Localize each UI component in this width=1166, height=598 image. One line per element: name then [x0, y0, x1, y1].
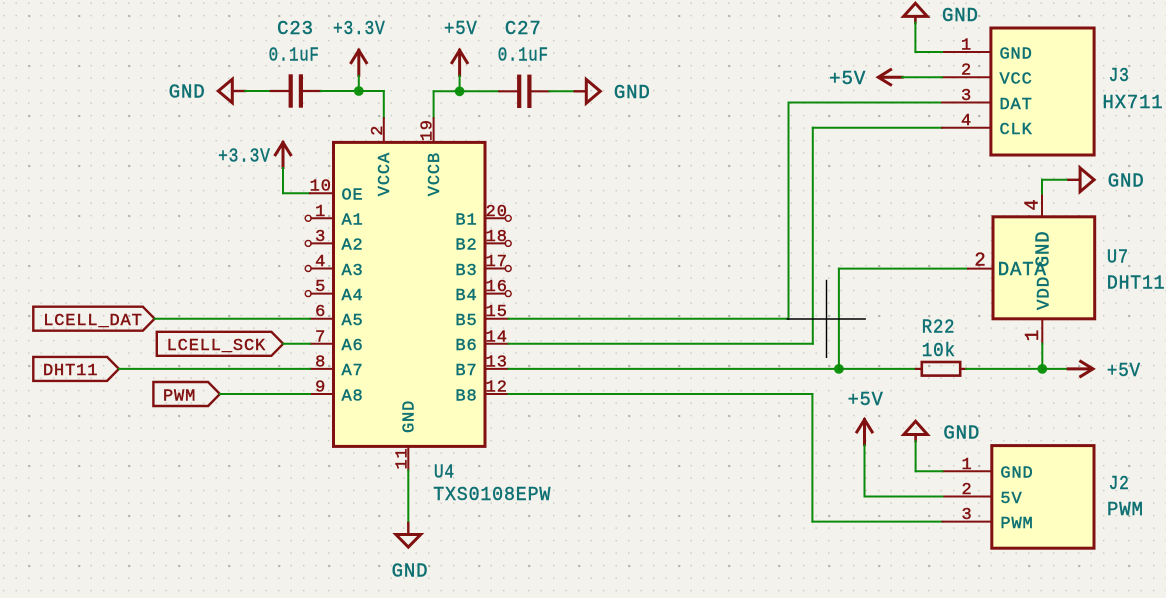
- svg-text:10: 10: [310, 178, 332, 197]
- wire DAT riser vertical: [788, 103, 790, 319]
- U4 pin 13 (B7): [455, 353, 508, 381]
- U4 pin 2 (VCCA): [369, 118, 395, 196]
- svg-text:2: 2: [961, 62, 972, 81]
- svg-text:4: 4: [961, 112, 972, 131]
- U7 pin 1 (VDD): [1022, 276, 1055, 344]
- capacitor C27: [499, 75, 549, 108]
- wire B5 to DAT riser: [509, 318, 789, 320]
- wire corner to J3 pin1: [915, 51, 942, 53]
- wire junction up to DATA: [838, 269, 840, 369]
- resistor R22: [916, 362, 966, 376]
- wire DAT horizontal to J3: [789, 102, 943, 104]
- svg-text:+3.3V: +3.3V: [333, 18, 386, 40]
- svg-text:TXS0108EPW: TXS0108EPW: [433, 484, 551, 506]
- svg-text:GND: GND: [401, 400, 420, 433]
- svg-text:DHT11: DHT11: [43, 362, 98, 381]
- svg-text:18: 18: [486, 228, 508, 247]
- power symbol +3.3V OE (up arrow): [275, 143, 292, 168]
- svg-text:VCCB: VCCB: [426, 152, 445, 196]
- svg-text:B5: B5: [455, 312, 477, 331]
- svg-text:+5V: +5V: [829, 68, 866, 90]
- svg-text:LCELL_SCK: LCELL_SCK: [167, 337, 266, 356]
- wire gnd to C23: [245, 90, 271, 92]
- svg-text:12: 12: [486, 379, 508, 398]
- wire LCELL_DAT to A5: [155, 318, 310, 320]
- ground symbol below U4: [396, 523, 421, 547]
- gnd symbol left of C23: [218, 79, 245, 103]
- svg-text:GND: GND: [614, 82, 651, 104]
- power symbol +5V J2 (up arrow): [856, 420, 873, 445]
- wire C23 to +3.3V junction: [321, 90, 359, 92]
- wire corner to J2 pin2: [865, 496, 943, 498]
- svg-text:PWM: PWM: [1107, 499, 1144, 521]
- wire corner to J2 pin1: [916, 470, 943, 472]
- svg-text:GND: GND: [1033, 231, 1055, 268]
- svg-text:8: 8: [315, 353, 326, 372]
- wire CLK riser vertical: [812, 128, 814, 344]
- U4 pin 9 (A8): [310, 379, 364, 407]
- svg-text:+5V: +5V: [1107, 360, 1141, 382]
- cursor crosshair: [787, 280, 866, 358]
- svg-text:VCCA: VCCA: [376, 152, 395, 196]
- svg-text:4: 4: [1022, 198, 1044, 210]
- svg-text:B8: B8: [455, 387, 477, 406]
- svg-text:+5V: +5V: [848, 389, 884, 411]
- wire B6 to CLK riser: [509, 343, 813, 345]
- wire gnd down to J3 pin1: [914, 23, 916, 52]
- power symbol +5V right arrow: [1068, 361, 1093, 378]
- svg-text:16: 16: [486, 278, 508, 297]
- wire junction to VCCA corner: [359, 90, 384, 92]
- svg-text:5: 5: [315, 278, 326, 297]
- wire R22 to VDD junction: [966, 368, 1042, 370]
- svg-text:0.1uF: 0.1uF: [269, 44, 320, 66]
- svg-text:20: 20: [486, 203, 508, 222]
- U4 pin 6 (A5): [310, 303, 364, 331]
- wire gnd down to J2 pin1: [915, 441, 917, 471]
- U4 pin 8 (A7): [310, 353, 364, 381]
- svg-text:HX711: HX711: [1103, 92, 1164, 114]
- wire corner to OE pin: [283, 192, 310, 194]
- svg-text:13: 13: [486, 353, 508, 372]
- J2 pin 1 (GND): [943, 456, 1034, 484]
- svg-text:0.1uF: 0.1uF: [498, 44, 549, 66]
- svg-text:U7: U7: [1107, 247, 1129, 269]
- U4 pin 12 (B8): [455, 379, 508, 407]
- svg-text:A6: A6: [342, 337, 364, 356]
- wire B7 to junction: [509, 368, 839, 370]
- wire junction to VCCB corner: [434, 90, 460, 92]
- svg-text:A5: A5: [342, 312, 364, 331]
- svg-text:PWM: PWM: [1000, 515, 1033, 534]
- svg-text:1: 1: [961, 456, 972, 475]
- svg-text:10k: 10k: [922, 340, 956, 362]
- wire B8 horizontal: [509, 393, 813, 395]
- svg-text:R22: R22: [922, 317, 956, 339]
- svg-text:+5V: +5V: [444, 18, 478, 40]
- wire +3.3V symbol drop: [358, 76, 360, 91]
- svg-text:GND: GND: [1000, 465, 1033, 484]
- svg-text:A2: A2: [342, 237, 364, 256]
- gnd symbol right of C27: [575, 80, 601, 104]
- sensor U7 DHT11 body: [993, 217, 1095, 319]
- U4 pin 10 (OE): [310, 178, 364, 206]
- gnd symbol above J2: [904, 421, 928, 441]
- gnd symbol above J3: [904, 3, 928, 23]
- svg-text:7: 7: [315, 328, 326, 347]
- J3 pin 3 (DAT): [942, 87, 1033, 115]
- svg-text:19: 19: [419, 119, 438, 141]
- svg-text:2: 2: [974, 250, 986, 272]
- global label PWM: [153, 382, 220, 406]
- svg-text:9: 9: [315, 379, 326, 398]
- wire junction to R22: [839, 368, 916, 370]
- svg-text:DHT11: DHT11: [1107, 273, 1166, 295]
- global label LCELL_DAT: [33, 307, 154, 331]
- svg-text:1: 1: [961, 37, 972, 56]
- svg-text:GND: GND: [942, 5, 979, 27]
- svg-text:J3: J3: [1109, 65, 1130, 87]
- U4 pin 15 (B5): [455, 303, 508, 331]
- op IC U4 TXS0108EPW body: [334, 142, 486, 446]
- svg-text:A7: A7: [342, 362, 364, 381]
- junction +5V rail: [455, 86, 465, 96]
- connector J2 PWM body: [992, 446, 1094, 549]
- svg-text:5V: 5V: [1000, 490, 1022, 509]
- svg-text:4: 4: [315, 253, 326, 272]
- svg-text:A4: A4: [342, 287, 364, 306]
- U4 pin 14 (B6): [455, 328, 508, 356]
- wire down to VCCB pin: [433, 91, 435, 118]
- svg-text:OE: OE: [342, 187, 364, 206]
- U4 pin 3 (A2): [305, 228, 363, 256]
- svg-text:LCELL_DAT: LCELL_DAT: [43, 312, 142, 331]
- J3 pin 1 (GND): [942, 37, 1033, 65]
- svg-text:A3: A3: [342, 262, 364, 281]
- J2 pin 2 (5V): [943, 481, 1023, 509]
- junction node DHT11 data: [834, 364, 844, 374]
- svg-text:B3: B3: [455, 262, 477, 281]
- U4 pin 7 (A6): [310, 328, 364, 356]
- U4 pin 1 (A1): [305, 203, 363, 231]
- svg-text:6: 6: [315, 303, 326, 322]
- U4 pin 16 (B4): [455, 278, 511, 306]
- svg-text:2: 2: [369, 125, 388, 136]
- svg-text:3: 3: [315, 228, 326, 247]
- svg-text:3: 3: [961, 506, 972, 525]
- wire U7 VDD down to junction: [1041, 344, 1043, 369]
- svg-text:2: 2: [961, 481, 972, 500]
- U4 pin 18 (B2): [455, 228, 511, 256]
- svg-text:VDD: VDD: [1035, 276, 1055, 310]
- wire down to VCCA pin: [383, 91, 385, 118]
- svg-text:15: 15: [486, 303, 508, 322]
- svg-text:B6: B6: [455, 337, 477, 356]
- svg-text:A8: A8: [342, 387, 364, 406]
- svg-text:11: 11: [393, 447, 412, 469]
- wire LCELL_SCK to A6: [283, 343, 310, 345]
- wire DHT11 to A7: [119, 368, 310, 370]
- U7 pin 4 (GND): [1022, 194, 1055, 268]
- svg-text:CLK: CLK: [1000, 121, 1033, 140]
- U4 pin 19 (VCCB): [419, 118, 445, 196]
- svg-text:J2: J2: [1109, 473, 1130, 495]
- wire junction to +5V arrow: [1042, 368, 1068, 370]
- svg-text:C23: C23: [277, 18, 314, 40]
- wire U7 gnd corner right: [1042, 179, 1068, 181]
- wire CLK horizontal to J3: [813, 127, 942, 129]
- U4 pin 11 (GND): [393, 400, 419, 471]
- capacitor C23: [271, 74, 321, 107]
- svg-text:VCC: VCC: [1000, 71, 1033, 90]
- svg-text:B7: B7: [455, 362, 477, 381]
- svg-text:A1: A1: [342, 212, 364, 231]
- svg-text:DAT: DAT: [1000, 96, 1033, 115]
- junction +3.3V rail: [354, 86, 364, 96]
- U4 pin 5 (A4): [305, 278, 363, 306]
- svg-text:GND: GND: [169, 82, 206, 104]
- U4 pin 20 (B1): [455, 203, 511, 231]
- gnd symbol right of U7: [1069, 168, 1095, 192]
- svg-text:GND: GND: [1000, 45, 1033, 64]
- wire C27 to gnd arrow: [549, 90, 575, 92]
- svg-text:B1: B1: [455, 212, 477, 231]
- svg-text:B4: B4: [455, 287, 477, 306]
- svg-text:GND: GND: [392, 560, 429, 582]
- svg-text:+3.3V: +3.3V: [218, 146, 271, 168]
- global label DHT11: [33, 357, 119, 381]
- svg-text:PWM: PWM: [163, 387, 196, 406]
- wire DATA horizontal to U7: [839, 268, 968, 270]
- wire +3.3V to OE corner: [282, 168, 284, 193]
- connector J3 HX711 body: [991, 28, 1094, 155]
- svg-text:B2: B2: [455, 237, 477, 256]
- wire +5V to J3 VCC: [902, 76, 942, 78]
- U4 pin 4 (A3): [305, 253, 363, 281]
- svg-text:GND: GND: [1108, 171, 1145, 193]
- power symbol +3.3V (up arrow): [350, 50, 367, 75]
- wire U4 gnd pin down: [407, 471, 409, 524]
- J3 pin 2 (VCC): [942, 62, 1033, 90]
- power symbol +5V left arrow at VCC: [878, 69, 902, 86]
- svg-text:GND: GND: [943, 423, 980, 445]
- U4 pin 17 (B3): [455, 253, 511, 281]
- wire junction to C27: [460, 90, 500, 92]
- J3 pin 4 (CLK): [942, 112, 1033, 140]
- J2 pin 3 (PWM): [943, 506, 1034, 534]
- wire +5V down to J2 5V: [864, 445, 866, 496]
- svg-text:3: 3: [961, 87, 972, 106]
- wire B8 drop to PWM: [811, 394, 813, 522]
- U7 pin 2 (DATA): [968, 250, 1047, 281]
- wire PWM horizontal to J2: [812, 521, 942, 523]
- svg-text:1: 1: [315, 203, 326, 222]
- svg-text:1: 1: [1022, 329, 1044, 341]
- wire +5V symbol drop: [459, 76, 461, 92]
- svg-text:U4: U4: [434, 462, 455, 484]
- svg-text:C27: C27: [505, 18, 542, 40]
- global label LCELL_SCK: [157, 332, 283, 356]
- svg-text:14: 14: [486, 328, 508, 347]
- junction node VDD: [1037, 364, 1047, 374]
- svg-text:17: 17: [486, 253, 508, 272]
- wire PWM to A8: [220, 393, 310, 395]
- wire U7 gnd up: [1041, 180, 1043, 194]
- power symbol +5V (up arrow): [451, 50, 468, 75]
